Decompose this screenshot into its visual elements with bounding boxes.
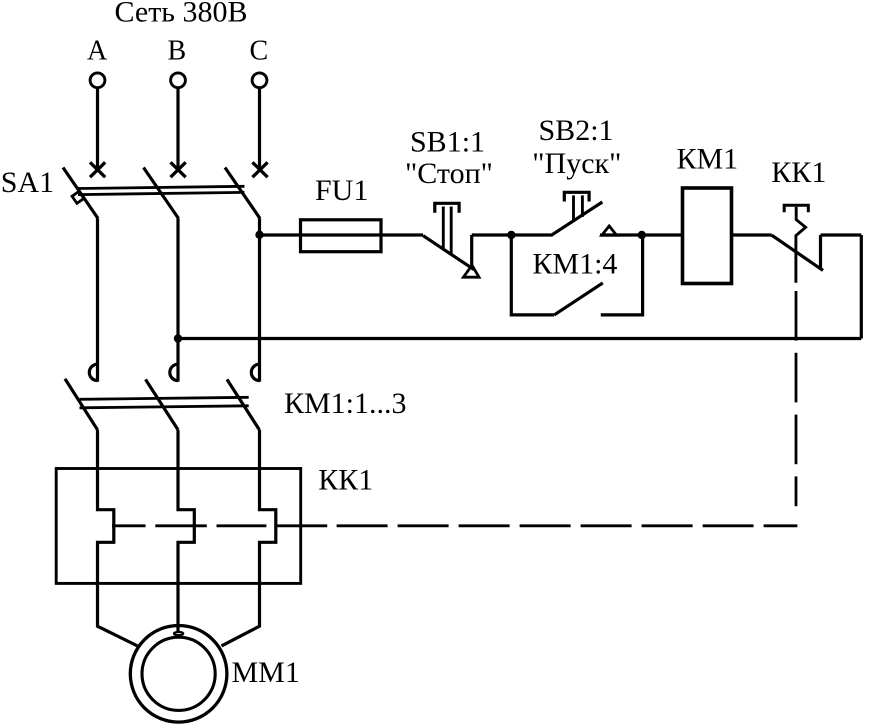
wire phase B stub	[176, 88, 179, 171]
junction dot SB2-KM1:4 right	[638, 231, 646, 239]
fuse FU1 body	[301, 220, 382, 252]
svg-text:"Пуск": "Пуск"	[532, 147, 621, 180]
svg-text:SB1:1: SB1:1	[410, 126, 485, 159]
svg-text:Сеть 380В: Сеть 380В	[115, 0, 248, 29]
junction dot phase C tap	[255, 231, 263, 239]
switch SA1 blade pole B	[144, 168, 179, 219]
terminal circle A	[90, 73, 105, 88]
wire C tap to fuse	[260, 233, 301, 236]
pushbutton SB2 NO blade	[552, 202, 602, 235]
motor MM1 inner circle	[142, 637, 215, 710]
switch SA1 linkage bar	[78, 186, 245, 194]
svg-text:FU1: FU1	[315, 174, 368, 207]
motor terminal ellipse	[174, 632, 183, 635]
contact KM1:4 blade	[554, 283, 603, 315]
motor MM1 outer circle	[130, 626, 227, 723]
contactor contact arc pole A	[89, 364, 97, 380]
svg-text:КМ1:1...3: КМ1:1...3	[284, 387, 407, 420]
connection X mark phase A	[90, 162, 105, 177]
contact KM1:4 right branch wire	[601, 235, 643, 315]
relay contact KK1 right terminal	[819, 235, 822, 270]
relay contact KK1 blade	[772, 235, 823, 270]
pushbutton SB1 right terminal	[470, 235, 473, 267]
contactor linkage bar	[80, 397, 249, 408]
wire phase A stub	[96, 88, 99, 171]
heater element and wire pole A	[98, 430, 138, 646]
pushbutton SB1 NC blade	[423, 236, 474, 270]
svg-text:"Стоп": "Стоп"	[405, 157, 493, 190]
wire SB2 to coil KM1	[600, 233, 682, 236]
wire through fuse to SB1	[300, 233, 423, 236]
wire SB1 to SB2	[472, 233, 553, 236]
pushbutton SB2 contact triangle	[602, 226, 617, 235]
svg-text:SB2:1: SB2:1	[539, 114, 614, 147]
thermal relay KK1 box	[56, 469, 301, 584]
relay KK1 thermal actuator	[784, 205, 808, 283]
svg-text:КМ1:4: КМ1:4	[532, 247, 617, 280]
wire control return	[178, 337, 861, 340]
coil KM1 body	[683, 188, 732, 284]
terminal circle C	[252, 73, 267, 88]
switch SA1 blade pole C	[225, 168, 260, 219]
dashed mechanical link vertical KK1	[795, 291, 798, 506]
contactor blade pole C	[227, 379, 260, 430]
pushbutton SB1 contact triangle	[463, 265, 479, 277]
wire coil to KK1 contact	[733, 233, 772, 236]
connection X mark phase B	[171, 162, 186, 177]
heater element and wire pole C	[222, 430, 276, 646]
svg-text:B: B	[168, 36, 187, 67]
pushbutton SB1 plunger	[435, 203, 459, 254]
wire right edge vertical	[860, 235, 863, 339]
pushbutton SB2 plunger	[564, 192, 589, 220]
svg-text:ММ1: ММ1	[232, 656, 300, 689]
contactor blade pole A	[65, 379, 98, 430]
junction dot return at phase B	[174, 334, 182, 342]
svg-text:C: C	[250, 36, 269, 67]
contact KM1:4 left branch wire	[511, 235, 554, 315]
contactor contact arc pole C	[251, 364, 259, 380]
svg-text:A: A	[87, 36, 108, 67]
switch SA1 handle square	[72, 191, 84, 203]
svg-text:КК1: КК1	[318, 464, 373, 497]
switch SA1 blade pole A	[63, 168, 98, 219]
connection X mark phase C	[252, 162, 267, 177]
contactor blade pole B	[146, 379, 179, 429]
dashed mechanical link horizontal KK1	[112, 524, 797, 527]
svg-text:КК1: КК1	[771, 156, 826, 189]
wire phase B vertical	[176, 219, 179, 382]
wire KK1 to right edge	[821, 233, 862, 236]
wire phase C vertical	[258, 219, 261, 382]
wire phase A vertical	[96, 219, 99, 382]
svg-text:SA1: SA1	[1, 166, 54, 199]
junction dot SB1-KM1:4 left	[507, 231, 515, 239]
svg-text:КМ1: КМ1	[677, 143, 739, 176]
contactor contact arc pole B	[170, 364, 178, 380]
heater element and wire pole B	[178, 430, 194, 631]
terminal circle B	[171, 73, 186, 88]
wire phase C stub	[258, 88, 261, 171]
